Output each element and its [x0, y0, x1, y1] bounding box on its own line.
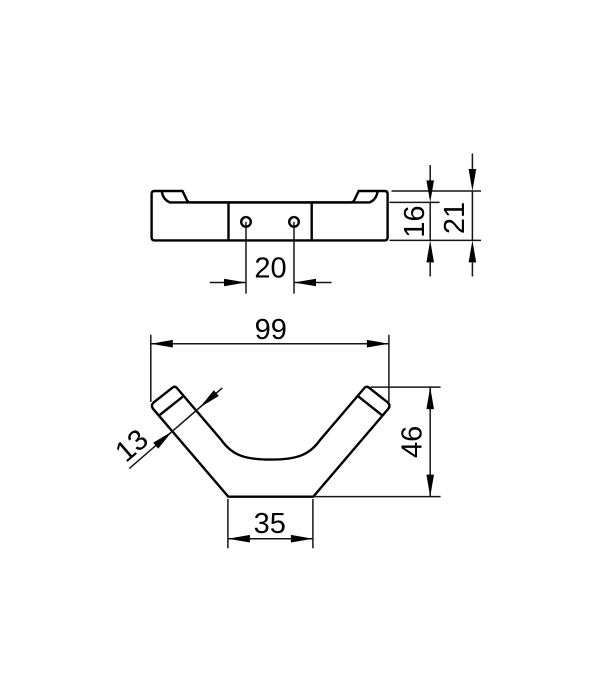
extension line lip top	[392, 190, 482, 192]
dim 16 bottom tail	[429, 262, 431, 276]
arrow dim99 left	[151, 340, 173, 348]
arrow dim21 bottom	[469, 240, 477, 262]
svg-text:20: 20	[254, 253, 286, 285]
dim 13 tail	[197, 388, 222, 410]
extension line 35 right	[312, 499, 314, 548]
dim 20 line right part	[294, 282, 332, 284]
dim 16 top tail	[429, 165, 431, 240]
arrow dim13 outer	[153, 431, 172, 448]
left tip chamfer band	[160, 396, 184, 415]
extension line bar surface	[390, 201, 440, 203]
extension line 99 left	[150, 335, 152, 402]
extension line 46 top	[371, 386, 441, 388]
svg-text:35: 35	[254, 508, 286, 540]
screw hole right	[289, 217, 299, 227]
dim 99 line	[151, 343, 389, 345]
arrow dim35 left	[228, 535, 250, 543]
hole extension line right	[293, 222, 295, 294]
extension line 46 bottom	[314, 496, 441, 498]
arrow dim16 bottom	[426, 240, 434, 262]
dim 13 leader	[129, 431, 172, 468]
left lip fillet	[162, 191, 170, 202]
arrow dim35 right	[291, 535, 313, 543]
bar top surface line	[169, 201, 370, 203]
wall plate right edge	[311, 202, 313, 240]
dim 21 bottom tail	[471, 262, 473, 276]
arrow dim20 left	[224, 279, 246, 287]
svg-text:99: 99	[255, 314, 287, 346]
svg-text:46: 46	[397, 426, 429, 458]
arrow dim21 top	[469, 169, 477, 191]
dim 13 crossing line	[172, 410, 197, 432]
hook bar outline (top view)	[152, 191, 388, 240]
dim 35 line	[228, 538, 313, 540]
arrow dim99 right	[367, 340, 389, 348]
wall plate left edge	[227, 202, 229, 240]
extension line 99 right	[388, 335, 390, 402]
svg-text:13: 13	[109, 423, 154, 468]
arrow dim20 right	[294, 279, 316, 287]
arrow dim13 inner	[200, 390, 219, 407]
screw hole left	[241, 217, 251, 227]
dim 20 line left part	[210, 282, 246, 284]
dim 21 top tail	[471, 154, 473, 241]
right tip chamfer band	[357, 396, 381, 415]
svg-text:16: 16	[399, 205, 431, 237]
arrow dim46 bottom	[426, 475, 434, 497]
arrow dim16 top	[426, 180, 434, 202]
dim 46 line	[429, 387, 431, 497]
arrow dim46 top	[426, 387, 434, 409]
V hook outline (side view)	[152, 387, 389, 497]
right lip fillet	[370, 191, 378, 202]
svg-text:21: 21	[439, 202, 471, 234]
hole extension line left	[245, 222, 247, 294]
extension line 35 left	[227, 499, 229, 548]
extension line bar bottom	[390, 239, 482, 241]
